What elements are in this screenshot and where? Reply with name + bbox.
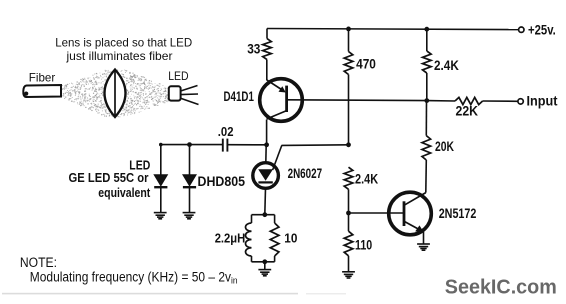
scan streak [2, 293, 346, 295]
svg-text:Modulating frequency (KHz) = 5: Modulating frequency (KHz) = 50 – 2vin [30, 270, 238, 287]
wire LED down [160, 145, 162, 175]
label Input [527, 93, 558, 108]
ground LED [154, 213, 167, 219]
lens [105, 70, 126, 118]
wire LED to ground [160, 188, 162, 213]
junction anode node [264, 142, 269, 147]
svg-text:2.4K: 2.4K [355, 171, 378, 186]
wire rail to R470 [348, 29, 350, 52]
svg-text:22K: 22K [456, 104, 479, 119]
wire Q1 collector down [266, 120, 268, 145]
svg-text:110: 110 [355, 237, 372, 252]
wire R10 bottom lead [274, 256, 276, 262]
resistor 2.4K top [423, 51, 432, 73]
svg-text:LED: LED [168, 69, 189, 83]
fiber cylinder [23, 85, 61, 97]
junction gate node [346, 142, 351, 147]
label 2.4K top [434, 58, 459, 73]
wire rail to R2.4K top [426, 29, 428, 51]
label 2.4K bottom [355, 171, 378, 186]
ground Q3 [417, 244, 430, 250]
svg-text:2N6027: 2N6027 [288, 166, 323, 181]
label NOTE: [20, 255, 57, 270]
label 2.2uH [215, 231, 246, 246]
wire anode node to Q2 [265, 145, 267, 163]
label 2N6027 [288, 166, 323, 181]
svg-text:equivalent: equivalent [98, 185, 151, 200]
svg-text:Input: Input [527, 93, 558, 108]
label 110 [355, 237, 372, 252]
wire R110 to ground [348, 256, 350, 272]
svg-text:470: 470 [356, 57, 376, 72]
label LED [129, 157, 150, 172]
svg-text:D41D1: D41D1 [224, 89, 255, 104]
label 2N5172 [439, 206, 477, 221]
wire DHD805 down [189, 145, 191, 175]
wire tank to ground [264, 262, 266, 270]
wire base node to R20K [425, 101, 427, 136]
terminal +25v [519, 27, 524, 32]
label Fiber [29, 70, 55, 84]
transistor Q1 D41D1 [260, 79, 303, 122]
wire rail to R33 [266, 29, 268, 39]
junction tank bottom [262, 259, 267, 264]
svg-text:GE LED 55C or: GE LED 55C or [69, 170, 149, 185]
junction DHD805 top [187, 142, 192, 147]
label +25v. [528, 23, 556, 38]
junction base node [424, 98, 429, 103]
wire R22K to Input [483, 100, 518, 102]
junction LED top corner [159, 143, 163, 147]
svg-text:2N5172: 2N5172 [439, 206, 477, 221]
wire DHD805 to ground [189, 188, 191, 213]
diode GE LED 55C [154, 175, 167, 187]
svg-text:+25v.: +25v. [528, 23, 556, 38]
label D41D1 [224, 89, 255, 104]
svg-text:33: 33 [247, 41, 261, 56]
resistor 10 [270, 223, 279, 256]
wire R470 to gate node [348, 75, 350, 145]
label 470 [356, 57, 376, 72]
wire coil top lead [251, 215, 253, 223]
svg-text:2.4K: 2.4K [434, 58, 459, 73]
svg-text:.02: .02 [218, 124, 234, 139]
wire Q3 base [349, 212, 405, 214]
resistor 2.4K bottom [344, 167, 353, 189]
capacitor C .02 [223, 139, 228, 152]
inductor 2.2uH [245, 223, 251, 256]
junction rail/R2.4K [424, 27, 429, 32]
resistor 20K [422, 136, 431, 160]
svg-text:SeekIC.com: SeekIC.com [445, 276, 557, 298]
label .02 [218, 124, 234, 139]
label 22K [456, 104, 479, 119]
label LED (top) [168, 69, 189, 83]
svg-text:20K: 20K [435, 139, 454, 154]
PUT Q2 2N6027 [253, 145, 282, 188]
wire R33 to Q1 emitter [266, 60, 268, 80]
caption line 1 [55, 36, 192, 49]
svg-text:NOTE:: NOTE: [20, 255, 57, 270]
label DHD805 [198, 174, 246, 189]
light cone stipple [62, 70, 169, 117]
resistor 22K [455, 97, 483, 104]
wire Q3 emitter to ground [423, 232, 425, 244]
wire coil bottom lead [251, 256, 253, 262]
wire R2.4K to base node [426, 73, 428, 100]
wire R10 top lead [274, 215, 276, 223]
wire tank top bar [252, 214, 275, 216]
wire +25V rail [267, 29, 519, 30]
wire Q2 gate [282, 144, 349, 147]
wire Q2 cathode [264, 188, 267, 214]
wire tank bottom bar [252, 261, 275, 263]
junction rail/R470 [346, 27, 351, 32]
resistor 33 [263, 39, 272, 60]
diode DHD805 [183, 175, 196, 187]
watermark SeekIC.com [445, 276, 557, 298]
label equivalent [98, 185, 151, 200]
svg-text:2.2μH: 2.2μH [215, 231, 246, 246]
svg-text:DHD805: DHD805 [198, 174, 246, 189]
terminal Input [518, 99, 523, 104]
resistor 110 [344, 231, 353, 256]
transistor Q3 2N5172 [389, 192, 432, 235]
svg-text:10: 10 [284, 231, 297, 246]
junction tank top [262, 212, 267, 217]
label GE LED 55C or [69, 170, 149, 185]
svg-text:Fiber: Fiber [29, 70, 55, 84]
LED package drawing [169, 86, 199, 105]
ground DHD805 [183, 213, 196, 219]
label 33 [247, 41, 261, 56]
wire LED node [161, 144, 223, 146]
ground tank [258, 270, 271, 276]
wire base node to R110 [348, 213, 350, 231]
wire R2.4Kb to Q3 base node [348, 189, 350, 213]
junction Q3 base node [346, 211, 351, 216]
caption line 2 [65, 50, 172, 63]
ground R110 [342, 272, 355, 278]
wire Q1 base [287, 99, 427, 102]
wire base node to R22K [427, 100, 455, 102]
label 20K [435, 139, 454, 154]
svg-text:Lens is placed so that LED: Lens is placed so that LED [55, 36, 192, 49]
svg-text:just illuminates fiber: just illuminates fiber [65, 50, 172, 63]
resistor 470 [344, 52, 353, 75]
wire cap to anode node [227, 144, 266, 146]
wire R20K to Q3 collector [425, 160, 428, 193]
label 10 [284, 231, 297, 246]
note modulating frequency [30, 270, 238, 287]
